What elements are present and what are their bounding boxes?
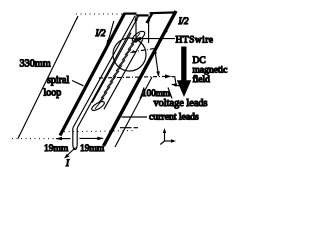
HTS wire tape edge 1 <box>73 16 135 129</box>
leader current leads <box>122 116 148 118</box>
lower voltage tap dashed line <box>99 76 167 78</box>
current lead left (thick) <box>60 14 125 136</box>
top dotted extension line <box>76 13 125 15</box>
svg-text:19mm: 19mm <box>80 144 105 154</box>
svg-text:I/2: I/2 <box>178 16 189 26</box>
spiral former cylinder side 2 <box>92 33 131 103</box>
bottom-left dotted extension line <box>12 138 57 140</box>
dimension line 330mm <box>18 16 78 139</box>
leader spiral loop <box>72 81 84 86</box>
dimension line 19mm right <box>80 137 104 139</box>
svg-text:100mm: 100mm <box>142 88 170 98</box>
bottom-middle dotted line <box>64 131 133 132</box>
svg-text:field: field <box>193 74 211 85</box>
svg-text:19mm: 19mm <box>44 144 69 154</box>
svg-text:current leads: current leads <box>149 112 199 123</box>
terminal line bottom right <box>120 127 132 129</box>
up arrow right <box>148 18 150 43</box>
current lead right (thick) <box>104 11 177 146</box>
leader HTS wire <box>136 38 175 40</box>
dimension line 100mm <box>155 50 159 76</box>
cylinder end cap bottom <box>90 100 105 112</box>
svg-text:I: I <box>65 158 70 168</box>
current direction arrow left <box>108 21 114 41</box>
hairpin U-turn at bottom <box>73 128 77 150</box>
top bus bar left segment <box>124 13 137 15</box>
HTS wire tape edge 2 <box>77 16 139 129</box>
svg-text:voltage leads: voltage leads <box>154 98 208 109</box>
svg-text:330mm: 330mm <box>20 59 51 70</box>
dimension line 19mm left <box>56 138 71 140</box>
leader voltage leads upper <box>172 84 181 86</box>
up arrow left <box>135 18 137 43</box>
upper voltage tap dashed line <box>132 49 155 53</box>
spiral loop circle <box>113 38 146 71</box>
DC magnetic field arrow <box>181 47 186 81</box>
svg-text:HTSwire: HTSwire <box>176 36 214 46</box>
spiral winding hatches <box>95 33 140 109</box>
current I arrow at bottom <box>67 148 76 157</box>
svg-text:DC: DC <box>193 56 206 66</box>
leader voltage leads lower <box>168 88 172 99</box>
svg-text:spiral: spiral <box>47 75 69 86</box>
cylinder end cap top <box>131 29 147 43</box>
spiral former cylinder side 1 <box>104 39 143 109</box>
bus jog segment at slot <box>136 14 148 16</box>
top bus bar right segment <box>150 11 177 14</box>
svg-text:loop: loop <box>44 88 62 99</box>
svg-text:magnetic: magnetic <box>193 66 228 76</box>
svg-text:I/2: I/2 <box>95 28 106 38</box>
voltage lead wire lower <box>115 77 152 147</box>
coordinate axes <box>164 130 166 141</box>
slot slant piece <box>147 13 153 23</box>
current direction arrow right <box>165 23 170 32</box>
